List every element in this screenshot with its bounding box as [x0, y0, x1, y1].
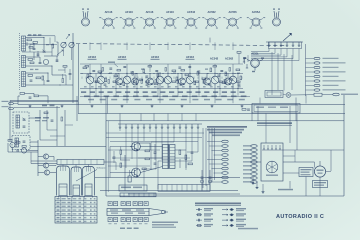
capacitor C41	[16, 149, 18, 152]
wire FM section links	[29, 90, 106, 147]
label lug B3	[243, 153, 251, 154]
IF transformer coil L10	[186, 72, 194, 88]
potentiometer strip body	[120, 193, 156, 197]
ground symbol bottom right 2	[262, 191, 264, 192]
FM trimmer C31	[23, 118, 26, 120]
dial bottom squares	[108, 218, 148, 222]
pin tick texture row	[82, 77, 242, 79]
connector lug P4	[314, 71, 320, 73]
antenna coil assembly L1 (dotted screen)	[19, 33, 21, 90]
resistor R21	[20, 93, 25, 95]
resistor R53	[179, 150, 181, 155]
wire feedback drop	[209, 38, 211, 43]
label lug B10	[243, 181, 251, 182]
ground symbol bottom right 1	[256, 186, 258, 187]
supply feed lug	[333, 93, 339, 96]
capacitor C33	[23, 140, 26, 142]
transistor pinout AF116 #2	[99, 10, 117, 28]
capacitor C34	[51, 119, 54, 121]
transistor stage T9	[179, 73, 186, 85]
svg-text:AC562: AC562	[207, 10, 216, 14]
transistor stage T6	[147, 73, 154, 85]
transistor pinout AC562 #7	[202, 10, 220, 28]
wire AF bus upper	[95, 177, 240, 179]
svg-text:AF116: AF116	[118, 55, 126, 59]
label connector P3	[323, 67, 339, 68]
electrolytic can C103	[83, 167, 95, 196]
svg-text:AF116: AF116	[125, 10, 133, 14]
transistor pinout AC55L (second row)	[244, 53, 265, 73]
wire left vertical feed	[78, 44, 80, 105]
emitter resistor dots row	[84, 86, 241, 87]
resistor R4	[28, 75, 33, 77]
connector lug P7	[314, 84, 320, 86]
resistor R7	[52, 44, 54, 48]
svg-text:AC55A: AC55A	[252, 10, 261, 14]
label AM30 with pointer	[108, 62, 115, 63]
electrolytic can C101	[57, 166, 70, 196]
capacitor C6	[56, 59, 59, 61]
dial lamp assembly box	[252, 104, 300, 114]
relay box	[261, 143, 283, 181]
label lug B9	[243, 177, 251, 178]
left edge connector lug 2	[9, 107, 14, 109]
supply feed resistor	[314, 93, 322, 96]
resistor network box	[119, 185, 147, 191]
ground symbols along rail	[29, 105, 244, 107]
connector lug P6	[314, 80, 320, 82]
dial cord mechanism top squares	[108, 202, 148, 206]
transistor pinout AF116 #4	[140, 10, 158, 28]
variable capacitor gang section 1	[61, 42, 66, 47]
vibrator motor circle	[266, 161, 278, 176]
AF preamp transistor Q31	[10, 142, 15, 147]
component value labels row 2	[84, 95, 90, 97]
wire output stage links	[120, 143, 186, 191]
resistor R11 left of stage1	[62, 79, 64, 83]
IF transformer coil L8	[164, 72, 172, 88]
capacitor C53	[191, 151, 194, 153]
switch row lower (wave band selector)	[118, 124, 202, 129]
label lug B6	[243, 165, 251, 166]
connector lug P8	[314, 89, 320, 91]
wire from left block to lower box	[72, 103, 74, 146]
wire lower distribution rail	[78, 113, 345, 115]
transistor stage T11	[204, 73, 211, 85]
legend entry right row 4	[222, 224, 246, 227]
label lug B7	[243, 169, 251, 170]
wire stage risers from supply rail	[90, 42, 233, 50]
label lug B5	[243, 161, 251, 162]
driver transistor Q43	[44, 170, 49, 175]
connector lug B9	[251, 177, 257, 180]
wire upper return rail	[10, 101, 78, 103]
wire lug A8	[214, 172, 222, 174]
resistor R22	[34, 95, 39, 97]
FM oscillator shield box (dashed)	[13, 112, 29, 133]
generator circle	[314, 161, 325, 177]
resistor R8	[30, 62, 34, 64]
wire switch bend drops	[239, 53, 248, 64]
wire chassis ground rail	[18, 104, 345, 106]
label connector P6	[323, 80, 346, 81]
connector lug A3	[222, 149, 228, 152]
label connector P2	[323, 62, 346, 63]
transistor pinout AF116 #5	[161, 10, 179, 28]
wire ignition section links	[250, 150, 344, 196]
legend entry left row 4	[196, 224, 213, 227]
contact marks left of AC55L	[243, 58, 248, 68]
connector lug B8	[251, 173, 257, 176]
svg-text:Gehäuse: Gehäuse	[97, 168, 107, 170]
voltage measurement table	[55, 197, 97, 224]
wire AF preamp links	[8, 139, 38, 176]
tone capacitor C56	[128, 170, 131, 182]
svg-text:AF116: AF116	[105, 10, 113, 14]
svg-text:AF116: AF116	[186, 55, 194, 59]
wire output bias links	[110, 147, 162, 178]
label left margin 2	[2, 106, 9, 107]
IF transformer coil L2	[97, 72, 105, 88]
transistor Q1 input	[43, 59, 48, 64]
svg-text:AC562: AC562	[225, 57, 234, 61]
connector lug B10	[251, 181, 257, 184]
table row entries	[57, 198, 96, 222]
trimmer capacitor C3	[43, 50, 46, 52]
IF transformer coil L4	[123, 72, 131, 88]
transistor pinout AF116 #1	[82, 9, 90, 27]
connector lug A2	[222, 145, 228, 148]
electrolytic can C102	[71, 167, 82, 196]
capacitor C5	[37, 53, 40, 55]
label supply feed	[341, 94, 358, 95]
label lug B2	[243, 149, 251, 150]
terminal strip board	[158, 185, 210, 192]
transistor pinout AC55A #10	[273, 9, 281, 27]
resistor R3	[28, 59, 33, 61]
transistor pinout AC55A #9	[247, 10, 265, 28]
transistor pinout AF116 #3	[120, 10, 138, 28]
connector lug A7	[222, 167, 228, 170]
band switch contact row	[266, 42, 303, 47]
FM oscillator coil L31	[16, 115, 20, 128]
switch wiring verticals	[251, 49, 299, 61]
connector lug A4	[222, 154, 228, 157]
resistor R31	[22, 146, 26, 148]
wire lug A9	[207, 177, 222, 179]
coil L1a	[22, 36, 26, 51]
svg-text:AF116: AF116	[88, 55, 96, 59]
label left margin 1	[2, 101, 9, 102]
connector lug B7	[251, 169, 257, 172]
vertical harness bundle	[203, 128, 215, 188]
label connector P1	[323, 58, 339, 59]
label box Lichtmaschine	[299, 168, 313, 177]
wire lug A7	[211, 168, 222, 170]
svg-text:AF116: AF116	[151, 55, 159, 59]
resistor R41	[8, 140, 12, 142]
capacitor C70 near switch	[243, 57, 246, 59]
label lug B1	[243, 145, 251, 146]
resistor R5	[36, 77, 41, 79]
svg-text:AUTORADIO II C: AUTORADIO II C	[276, 214, 324, 220]
wire lug feeder vertical	[305, 44, 307, 90]
chassis enclosure outline	[106, 95, 344, 196]
wire left stub rail	[14, 107, 60, 109]
transistor pinout AC556 #8	[223, 10, 241, 28]
antenna input cluster wires	[26, 33, 74, 90]
legend note left	[152, 222, 178, 229]
coil L1c	[22, 72, 26, 87]
driver transistor Q41	[43, 154, 48, 159]
label Entstoerung	[278, 189, 293, 191]
coil L1b	[22, 56, 26, 68]
wire AF bus lower	[100, 190, 238, 192]
resistor R52	[145, 158, 150, 160]
band switch body outline	[269, 42, 302, 49]
wire transformer drops to chassis rail	[90, 88, 238, 103]
wire mid horizontal 96	[80, 96, 250, 98]
dial scale long body	[107, 209, 149, 216]
connector lug A6	[222, 163, 228, 166]
wire bus to lug column	[306, 59, 314, 91]
coupling capacitor C57	[113, 156, 116, 158]
legend entry left row 2	[196, 213, 213, 216]
driver transformer T51	[163, 144, 176, 169]
resistor R1	[27, 39, 32, 41]
IF transformer coil L12	[211, 72, 219, 88]
resistor R2	[33, 42, 38, 44]
variable capacitor gang section 2	[69, 42, 74, 47]
wire lug A10	[209, 181, 222, 183]
tuning gang coupling line (dashed)	[76, 44, 287, 46]
wire antenna extra links	[22, 36, 72, 85]
resistor R42	[16, 142, 20, 144]
wire lug A6	[209, 163, 222, 165]
connector lug A8	[222, 172, 228, 175]
label FM AM switch	[42, 105, 47, 107]
band switch arrow	[283, 33, 292, 41]
capacitor C2	[39, 62, 42, 64]
resistor R55	[188, 163, 193, 165]
wire rail drop left	[17, 96, 19, 105]
switch fan wiring	[106, 129, 204, 191]
wire lug A5	[207, 159, 222, 161]
label connector P7	[323, 85, 339, 86]
IF block boundary verticals	[77, 96, 196, 124]
capacitor C52	[154, 162, 157, 164]
second shield box (dashed)	[12, 136, 30, 150]
connector lug B4	[251, 157, 257, 160]
label box Zuendspule	[313, 181, 328, 188]
wire left stage1 links	[58, 67, 70, 80]
wire lug A4	[214, 154, 222, 156]
pin labels under dial boxes	[109, 223, 148, 224]
connector lug P3	[314, 66, 320, 68]
svg-text:AC556: AC556	[228, 10, 237, 14]
transistor stage T3	[116, 73, 123, 85]
resistor R33	[44, 112, 48, 114]
output transistor Q51	[130, 142, 140, 151]
svg-text:AC542: AC542	[187, 10, 196, 14]
legend note centralniho	[238, 228, 258, 230]
biasing resistor-capacitor network of RF/IF stages	[82, 67, 242, 86]
tuning arrow symbol	[57, 50, 63, 55]
IF transformer coil L7	[156, 72, 164, 88]
can mounting feet	[59, 196, 93, 198]
wire lug A1	[207, 141, 222, 143]
IF transformer coil L14	[229, 72, 237, 88]
legend entry left row 1	[196, 208, 213, 211]
pilot lamp symbol	[286, 93, 291, 98]
label connector P5	[323, 76, 339, 77]
resistor R10 left of stage1	[63, 66, 67, 68]
terminal strip above cans	[57, 160, 104, 165]
label lug B4	[243, 157, 251, 158]
wire lug A3	[211, 150, 222, 152]
connector lug B1	[251, 145, 257, 148]
output transistor Q52	[130, 168, 140, 177]
legend entry right row 1	[222, 208, 246, 211]
svg-text:AF116: AF116	[166, 10, 174, 14]
label connector P8	[323, 89, 346, 90]
wire driver connections	[38, 157, 56, 173]
connector lug B2	[251, 149, 257, 152]
emitter resistor R58	[142, 168, 146, 170]
note text block (measurement conditions)	[207, 126, 247, 136]
wire interstage coupling bus	[80, 64, 243, 89]
connector lug B6	[251, 165, 257, 168]
wire strip to output stage	[104, 162, 116, 170]
base bias resistor R57	[120, 163, 122, 167]
junction dots antenna	[34, 37, 61, 86]
title Stoerschutzmassnahmen underlined	[257, 122, 292, 125]
upper bias parts row	[85, 66, 240, 76]
connector lug A5	[222, 158, 228, 161]
resistor R51	[145, 150, 150, 152]
connector lug A10	[222, 181, 228, 184]
label under dial	[120, 228, 125, 230]
dial pointer taper	[149, 209, 168, 216]
legend entry right row 2	[222, 213, 246, 216]
transistor stage T13	[225, 73, 232, 85]
wire cans to strip	[63, 165, 89, 168]
resistor R34	[61, 117, 63, 121]
label connector P4	[323, 71, 346, 72]
connector lug P2	[314, 62, 320, 64]
fuse holder double box	[265, 91, 283, 98]
capacitor C21	[29, 96, 32, 98]
negative feedback capacitor C54	[200, 170, 203, 191]
component value labels row 3	[88, 99, 94, 101]
legend title LEGENDA	[195, 203, 241, 206]
label lug B8	[243, 173, 251, 174]
capacitor C10 left of stage1	[69, 73, 72, 75]
junction dots on buses	[90, 73, 239, 89]
parts under rail left of dial box	[242, 109, 250, 111]
connector lug B5	[251, 161, 257, 164]
svg-text:AF116: AF116	[146, 10, 154, 14]
wire strip feed left double line	[31, 152, 57, 164]
wire left mid links	[10, 93, 78, 140]
resistor R54	[185, 155, 187, 160]
resistor R6	[29, 47, 33, 49]
svg-text:AC542: AC542	[210, 57, 219, 61]
connector lug P1	[314, 57, 320, 59]
base bias resistor R56	[120, 150, 122, 154]
transistor pinout AC542 #6	[182, 10, 200, 28]
left edge connector lug 1	[9, 102, 18, 104]
gang drive arrow	[66, 35, 70, 40]
legend entry right row 3	[222, 219, 246, 222]
capacitor C7	[30, 79, 33, 81]
FM padder C32	[23, 125, 26, 127]
connector lug P5	[314, 75, 320, 77]
capacitor C1	[33, 48, 36, 50]
wire right side drops	[258, 52, 306, 150]
electrolytic C55	[208, 170, 211, 191]
resistor R70 near switch	[237, 52, 241, 54]
component value labels row 1	[81, 91, 86, 93]
oscillator coil L32	[15, 138, 19, 147]
relay contacts	[263, 145, 281, 149]
wire lug A2	[209, 145, 222, 147]
capacitor C4	[47, 80, 50, 82]
AF preamp transistor Q32	[21, 148, 26, 153]
driver transistor Q42	[43, 163, 48, 168]
wire supply feed links	[260, 94, 333, 121]
label antenna note	[35, 117, 41, 119]
label cluster antenna values	[28, 34, 31, 35]
capacitor C51	[154, 151, 157, 153]
resistor R9	[42, 76, 44, 80]
inter-stage coupling parts at circle level	[96, 80, 241, 86]
legend entry left row 3	[196, 219, 213, 222]
connector lug A1	[222, 140, 228, 143]
connector lug A9	[222, 176, 228, 179]
connector lug B3	[251, 153, 257, 156]
polarity arrow down	[252, 177, 254, 185]
transistor stage T5	[132, 73, 139, 85]
IF transformer coil L1	[86, 72, 94, 88]
wire AF bus lower 2	[128, 193, 240, 195]
